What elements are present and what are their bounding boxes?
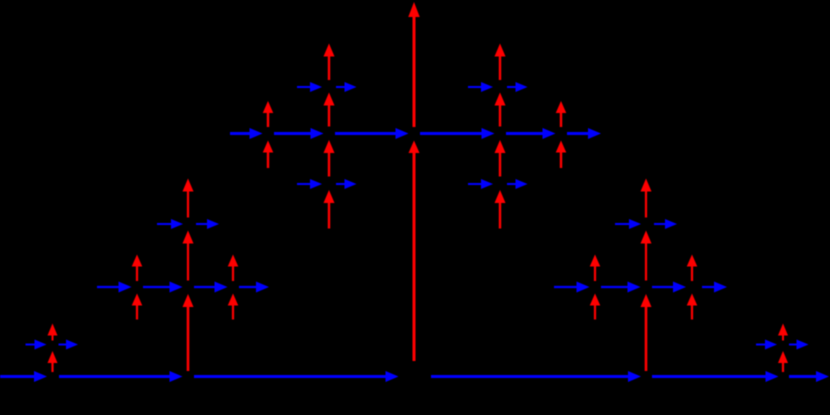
wire: main axis segment 6 (end) [789, 371, 829, 382]
column D4 lower mini: red feeder arrow [495, 190, 506, 229]
M1 node B2: red riser up to mini cluster m1 [183, 231, 194, 281]
M2 chain segment 1 into node C1 [554, 282, 590, 293]
column D2 lower mini: blue in-arrow [297, 179, 322, 189]
column D4 upper mini: blue in-arrow [468, 82, 493, 92]
wire: main axis segment 2 into node A2 [59, 371, 183, 382]
top chain segment 1 into node D1 [230, 128, 263, 139]
red riser (giant lower): node A3 up to top cluster center [409, 141, 420, 362]
M1 chain segment 2 into node B2 [143, 282, 183, 293]
M2 node C3: red up-arrow [687, 255, 698, 282]
tiny cluster T1: red up-arrow [48, 324, 58, 341]
M1 node B1: red lower arrow [132, 294, 143, 320]
column D2: red riser chain up to upper mini [324, 93, 335, 127]
red riser: node A1 up to tiny cluster T1 [48, 351, 58, 372]
M1 chain segment 1 into node B1 [97, 282, 132, 293]
M2 node C2: red riser up to mini cluster m2 [641, 231, 652, 281]
top chain segment 4 into node D4 [420, 128, 495, 139]
column D2 upper mini: blue in-arrow [297, 82, 322, 92]
column D4 lower mini: blue in-arrow [468, 179, 493, 189]
column D2 upper mini: red up-arrow [324, 44, 335, 81]
wire: main axis segment 1 into node A1 [0, 371, 47, 382]
red riser: node A2 up to medium cluster M1 [183, 294, 194, 371]
mini cluster m2: blue out-arrow [654, 219, 677, 229]
mini cluster m1: red up-arrow [183, 179, 194, 218]
M2 node C1: red up-arrow [590, 255, 601, 282]
M1 chain segment 4 (end) [239, 282, 269, 293]
top node D1: red up-arrow [263, 101, 274, 127]
top node D1: red lower arrow [263, 141, 274, 169]
red riser: node A5 up to tiny cluster T2 [778, 351, 788, 372]
M1 chain segment 3 into node B3 [194, 282, 228, 293]
wire: main axis segment 4 into node A4 [431, 371, 641, 382]
M2 chain segment 4 (end) [702, 282, 727, 293]
column D2 upper mini: blue out-arrow [336, 82, 357, 92]
M2 chain segment 2 into node C2 [601, 282, 641, 293]
column D2 lower mini: red feeder arrow [324, 190, 335, 229]
top node D5: red lower arrow [556, 141, 567, 169]
mini cluster m1: blue in-arrow [157, 219, 183, 229]
red riser: node A4 up to medium cluster M2 [641, 294, 652, 371]
M1 node B1: red up-arrow [132, 255, 143, 282]
top chain segment 3 into node D3 (center) [335, 128, 409, 139]
mini cluster m2: blue in-arrow [615, 219, 641, 229]
column D2: red riser lower mini up to chain [324, 140, 335, 177]
top node D5: red up-arrow [556, 101, 567, 127]
wire: main axis segment 3 into node A3 [194, 371, 399, 382]
wire: main axis segment 5 into node A5 [652, 371, 779, 382]
M2 chain segment 3 into node C3 [652, 282, 686, 293]
top chain segment 2 into node D2 [274, 128, 324, 139]
M2 node C1: red lower arrow [590, 294, 601, 320]
mini cluster m1: blue out-arrow [196, 219, 219, 229]
tiny cluster T2: blue in-arrow [756, 340, 777, 350]
column D4 upper mini: blue out-arrow [507, 82, 528, 92]
column D2 lower mini: blue out-arrow [336, 179, 357, 189]
mini cluster m2: red up-arrow [641, 179, 652, 218]
M2 node C3: red lower arrow [687, 294, 698, 320]
red riser (giant upper): top cluster center to top of figure [408, 2, 420, 127]
column D4 upper mini: red up-arrow [495, 44, 506, 81]
tiny cluster T2: red up-arrow [778, 324, 788, 341]
top chain segment 5 into node D5 [506, 128, 556, 139]
tiny cluster T1: blue in-arrow [26, 340, 47, 350]
tiny cluster T1: blue out-arrow [59, 340, 79, 350]
tiny cluster T2: blue out-arrow [789, 340, 809, 350]
column D4: red riser lower mini up to chain [495, 140, 506, 177]
column D4: red riser chain up to upper mini [495, 93, 506, 127]
M1 node B3: red lower arrow [228, 294, 239, 320]
column D4 lower mini: blue out-arrow [507, 179, 528, 189]
top chain segment 6 (end) [567, 128, 601, 139]
M1 node B3: red up-arrow [228, 255, 239, 282]
